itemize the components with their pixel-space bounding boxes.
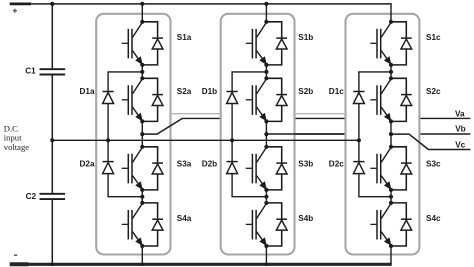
svg-text:voltage: voltage: [4, 142, 29, 152]
wire leg a S2-S3 link through output node: [141, 121, 143, 146]
diode D1b: [202, 72, 238, 140]
svg-text:C1: C1: [25, 67, 36, 76]
diode D2b: [202, 140, 238, 196]
wire leg c top connection: [390, 4, 392, 22]
label output Vc: [455, 141, 465, 150]
svg-text:S2b: S2b: [298, 87, 313, 96]
transistor S1a IGBT with anti-parallel diode: [122, 20, 192, 67]
wire neutral midpoint rail: [52, 139, 359, 141]
wire leg b S2-S3 link through output node: [265, 121, 267, 146]
wire leg a top connection: [140, 2, 144, 22]
wire phase c output from leg c: [391, 134, 470, 149]
svg-text:D2b: D2b: [202, 159, 217, 168]
transistor S4c IGBT with anti-parallel diode: [370, 201, 441, 248]
diode D2c: [329, 140, 365, 196]
node clamp branch leg b neutral junction: [230, 138, 234, 142]
wire leg c S3-S4 link with clamp tap: [389, 190, 393, 203]
transistor S1c IGBT with anti-parallel diode: [370, 20, 441, 67]
capacitor C2: [26, 192, 66, 201]
wire leg b S3-S4 link with clamp tap: [264, 190, 268, 203]
node leg c output junction: [389, 132, 393, 136]
svg-text:D1c: D1c: [329, 87, 344, 96]
label output Va: [455, 110, 465, 119]
module link line between leg b and leg c boxes: [295, 113, 346, 115]
transistor S2c IGBT with anti-parallel diode: [370, 76, 441, 123]
wire clamp branch leg b lower tap: [231, 196, 266, 198]
wire clamp branch leg c lower tap: [358, 196, 391, 198]
wire leg a bottom connection: [141, 246, 144, 266]
diode D2a: [80, 140, 114, 196]
capacitor C1: [25, 67, 65, 76]
svg-text:S1a: S1a: [177, 33, 192, 42]
wire Va output run (under modules): [182, 117, 470, 119]
svg-text:S4a: S4a: [177, 214, 192, 223]
transistor S2a IGBT with anti-parallel diode: [122, 76, 192, 123]
leg b module enclosure box: [221, 14, 295, 255]
svg-text:C2: C2: [26, 192, 37, 201]
wire phase b output from leg b (visible part): [266, 133, 344, 135]
transistor S1b IGBT with anti-parallel diode: [246, 20, 314, 67]
wire leg b bottom connection: [265, 246, 268, 266]
diode D1c: [329, 72, 365, 140]
wire leg c bottom connection: [390, 246, 392, 264]
svg-text:Vb: Vb: [455, 125, 465, 134]
wire leg c S1-S2 link with clamp tap: [389, 65, 393, 78]
wire leg b S1-S2 link with clamp tap: [264, 65, 268, 78]
svg-text:S3b: S3b: [298, 159, 313, 168]
wire positive DC top rail: [10, 3, 392, 5]
svg-text:S2a: S2a: [177, 87, 192, 96]
transistor S3c IGBT with anti-parallel diode: [370, 145, 441, 192]
transistor S3b IGBT with anti-parallel diode: [246, 145, 314, 192]
wire phase a output from leg a: [142, 118, 182, 134]
svg-text:D1b: D1b: [202, 87, 217, 96]
node leg a output junction: [140, 132, 144, 136]
wire clamp branch leg c upper tap: [358, 71, 391, 73]
wire Vb output run (under modules): [266, 133, 470, 135]
wire negative DC bottom rail: [10, 263, 392, 266]
node junction bottom-left: [51, 263, 54, 266]
label DC input voltage: [4, 123, 29, 152]
wire left DC rail vertical: [51, 4, 53, 264]
wire clamp branch leg b upper tap: [231, 71, 266, 73]
label output Vb: [455, 125, 465, 134]
transistor S3a IGBT with anti-parallel diode: [122, 145, 192, 192]
svg-text:S3a: S3a: [177, 159, 192, 168]
node leg b output junction: [264, 132, 268, 136]
node junction neutral-left: [50, 138, 54, 142]
svg-text:S1c: S1c: [426, 33, 441, 42]
module link line between leg a and leg b boxes: [171, 113, 221, 115]
transistor S4b IGBT with anti-parallel diode: [246, 201, 314, 248]
wire leg c S2-S3 link through output node: [390, 121, 392, 146]
minus terminal marker: [14, 254, 17, 256]
leg a module enclosure box: [96, 14, 170, 255]
plus terminal marker: [13, 9, 17, 13]
svg-text:S2c: S2c: [426, 87, 441, 96]
svg-text:Vc: Vc: [455, 141, 465, 150]
svg-text:S3c: S3c: [426, 159, 441, 168]
wire leg a S3-S4 link with clamp tap: [140, 190, 144, 203]
wire clamp branch leg a upper tap: [107, 71, 142, 73]
wire leg b top connection: [264, 2, 268, 22]
wire clamp branch leg a lower tap: [107, 196, 142, 198]
node clamp branch leg a neutral junction: [106, 138, 110, 142]
transistor S4a IGBT with anti-parallel diode: [122, 201, 192, 248]
svg-text:S1b: S1b: [298, 33, 313, 42]
transistor S2b IGBT with anti-parallel diode: [246, 76, 314, 123]
svg-text:D1a: D1a: [80, 87, 95, 96]
svg-text:Va: Va: [455, 110, 465, 119]
svg-text:D2a: D2a: [80, 159, 95, 168]
node junction top-left: [50, 2, 54, 6]
svg-text:S4c: S4c: [426, 214, 441, 223]
wire leg a S1-S2 link with clamp tap: [140, 65, 144, 78]
leg c module enclosure box: [346, 14, 420, 255]
diode D1a: [80, 72, 114, 140]
svg-text:D2c: D2c: [329, 159, 344, 168]
node clamp branch leg c neutral junction: [357, 138, 361, 142]
svg-text:S4b: S4b: [298, 214, 313, 223]
